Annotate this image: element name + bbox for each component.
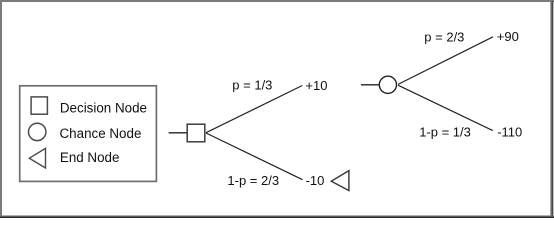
legend end node triangle icon — [29, 148, 45, 168]
wire: stub into decision node — [169, 132, 187, 134]
svg-text:Decision Node: Decision Node — [60, 101, 147, 116]
svg-text:1-p = 1/3: 1-p = 1/3 — [419, 125, 471, 140]
chance node circle — [379, 76, 396, 93]
wire: stub into chance node — [361, 84, 379, 86]
svg-text:End Node: End Node — [60, 150, 120, 165]
svg-text:-110: -110 — [497, 125, 522, 140]
wire: upper branch from decision node — [206, 86, 302, 133]
svg-text:p = 2/3: p = 2/3 — [424, 29, 464, 44]
svg-text:1-p = 2/3: 1-p = 2/3 — [227, 173, 279, 188]
legend decision node square icon — [31, 97, 47, 114]
svg-text:Chance Node: Chance Node — [60, 126, 142, 141]
svg-text:+90: +90 — [497, 29, 519, 44]
outer frame right edge — [550, 1, 553, 217]
legend chance node circle icon — [29, 123, 46, 140]
end node triangle after -10 — [331, 171, 349, 191]
outer frame left edge — [0, 0, 2, 218]
decision node square — [187, 124, 205, 142]
legend box — [20, 86, 157, 182]
outer frame bottom edge — [0, 215, 554, 218]
wire: lower branch from decision node — [206, 133, 303, 180]
outer frame top edge — [0, 0, 554, 2]
svg-text:-10: -10 — [306, 173, 325, 188]
wire: lower branch from chance node — [398, 85, 493, 130]
svg-text:+10: +10 — [305, 78, 327, 93]
wire: upper branch from chance node — [398, 37, 493, 85]
svg-text:p = 1/3: p = 1/3 — [232, 78, 272, 93]
